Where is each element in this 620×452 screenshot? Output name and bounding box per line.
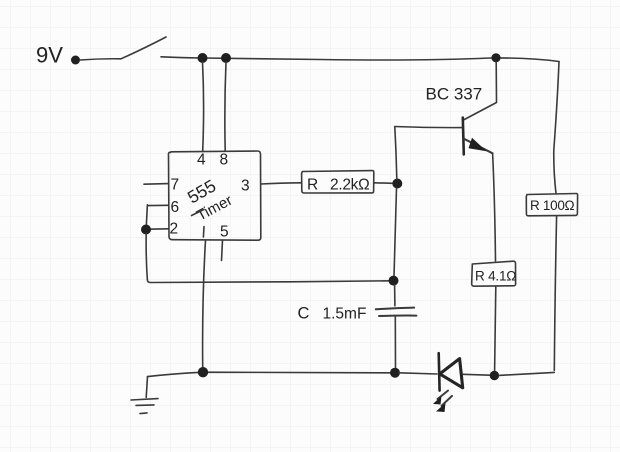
wire pin2 down and across to cap node xyxy=(146,233,390,283)
wire R100 down to bottom rail corner xyxy=(554,216,556,371)
node junction dot pin1 ground xyxy=(198,367,208,377)
capacitor C1 bottom plate xyxy=(379,315,416,317)
node junction dot cap top node xyxy=(389,276,399,286)
node junction dot LED xyxy=(490,371,499,380)
wire top rail switch to right bend xyxy=(161,57,559,62)
svg-text:2: 2 xyxy=(170,221,179,238)
pin label 1 xyxy=(202,227,205,238)
node junction dot pin2 xyxy=(141,225,151,235)
wire pin7 stub xyxy=(144,183,169,186)
wire base node down to cap node xyxy=(394,188,397,276)
svg-text:C: C xyxy=(298,305,310,323)
wire pin2 stub xyxy=(148,228,169,230)
svg-text:8: 8 xyxy=(220,152,229,169)
LED light arrow 2 xyxy=(442,396,453,406)
LED D1 triangle xyxy=(440,359,463,388)
wire base node up to base corner xyxy=(395,127,397,180)
wire ground riser xyxy=(146,377,147,398)
resistor R3 100 box xyxy=(526,194,577,216)
LED D1 cathode bar xyxy=(437,353,440,390)
wire emitter down to R4.1 xyxy=(493,153,496,261)
resistor R1 2.2k box xyxy=(302,171,374,193)
transistor Q1 emitter wire xyxy=(464,139,493,154)
node 9V terminal dot xyxy=(71,56,80,65)
node junction dot base node xyxy=(392,179,402,189)
label underline xyxy=(192,210,205,216)
wire pin6 stub xyxy=(148,204,169,206)
wire pin6-pin2 tie xyxy=(146,205,147,228)
node junction dot cap ground xyxy=(390,368,400,378)
wire 555 pin5 stub xyxy=(222,240,223,260)
wire bottom ground rail xyxy=(148,372,391,376)
transistor Q1 collector wire xyxy=(463,62,496,120)
svg-text:3: 3 xyxy=(241,178,250,195)
svg-text:1.5mF: 1.5mF xyxy=(323,306,367,323)
transistor Q1 emitter arrowhead xyxy=(469,138,487,152)
wire LED node to right corner xyxy=(499,372,554,375)
transistor Q1 base bar xyxy=(463,118,464,155)
wire rail cap node to LED xyxy=(399,373,437,374)
svg-text:7: 7 xyxy=(171,177,180,194)
transistor Q1 base wire xyxy=(395,127,462,128)
capacitor C1 bottom stub xyxy=(394,317,396,368)
wire pin4 drop xyxy=(203,62,204,151)
capacitor C1 top stub xyxy=(394,285,396,306)
svg-text:9V: 9V xyxy=(36,43,63,68)
switch S1 arm xyxy=(121,37,166,59)
ground symbol xyxy=(131,399,158,400)
wire pin3 to R2.2k xyxy=(261,183,302,184)
wire 9V dot to switch xyxy=(80,59,121,60)
node junction dot pin8 xyxy=(221,53,231,63)
svg-text:5: 5 xyxy=(220,224,229,241)
svg-text:6: 6 xyxy=(171,199,180,216)
svg-text:BC 337: BC 337 xyxy=(426,85,483,104)
wire R2.2k to node xyxy=(374,182,393,185)
node junction dot collector tap xyxy=(491,53,500,62)
svg-text:2.2kΩ: 2.2kΩ xyxy=(330,177,369,194)
svg-text:R 100Ω: R 100Ω xyxy=(530,198,575,213)
wire R4.1 down to LED node xyxy=(495,286,496,371)
resistor R2 4.1 box xyxy=(472,261,516,286)
svg-text:4: 4 xyxy=(197,152,206,169)
wire LED to node xyxy=(463,373,490,376)
svg-text:R: R xyxy=(307,177,318,194)
capacitor C1 top plate xyxy=(376,308,414,310)
LED light arrow 1 xyxy=(438,391,449,399)
node junction dot pin4 xyxy=(198,53,208,63)
wire right vertical to R100 xyxy=(554,62,559,194)
wire pin8 drop xyxy=(225,62,226,151)
op-amp U1 555 timer body xyxy=(168,151,260,240)
wire 555 pin1 down to ground rail xyxy=(203,240,206,367)
svg-text:R 4.1Ω: R 4.1Ω xyxy=(475,269,516,284)
